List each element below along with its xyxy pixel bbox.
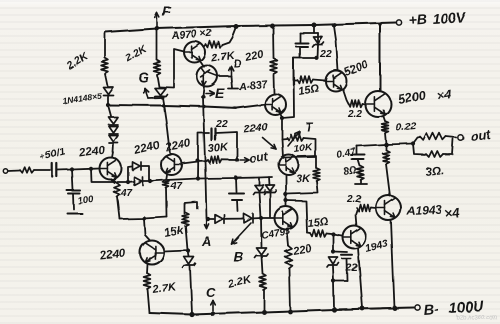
svg-text:15Ω: 15Ω — [307, 216, 329, 230]
svg-text:100: 100 — [77, 194, 95, 207]
svg-text:×4: ×4 — [435, 86, 453, 103]
svg-text:220: 220 — [243, 48, 265, 64]
svg-text:15Ω: 15Ω — [297, 82, 320, 98]
svg-text:B-: B- — [423, 302, 440, 319]
svg-text:A970 ×2: A970 ×2 — [170, 27, 212, 42]
svg-text:×4: ×4 — [444, 205, 461, 221]
svg-text:2.7K: 2.7K — [151, 281, 178, 296]
svg-text:C: C — [206, 285, 216, 300]
svg-text:0.22: 0.22 — [395, 120, 417, 134]
svg-text:2.2K: 2.2K — [226, 273, 253, 291]
svg-text:5200: 5200 — [343, 58, 371, 79]
svg-text:1N4148×5: 1N4148×5 — [62, 91, 103, 106]
svg-text:A: A — [201, 234, 211, 249]
svg-text:22: 22 — [345, 262, 358, 274]
svg-text:15k: 15k — [163, 225, 185, 240]
svg-text:3Ω.: 3Ω. — [425, 165, 445, 179]
svg-text:220: 220 — [291, 243, 313, 258]
svg-text:2240: 2240 — [98, 247, 126, 262]
svg-text:100V: 100V — [432, 9, 467, 27]
svg-text:2.2K: 2.2K — [123, 42, 150, 65]
svg-text:T: T — [305, 120, 314, 134]
svg-text:8Ω: 8Ω — [343, 165, 358, 178]
svg-text:5200: 5200 — [397, 88, 427, 107]
svg-text:2240: 2240 — [132, 139, 161, 157]
svg-text:50/1: 50/1 — [44, 145, 67, 162]
svg-text:30K: 30K — [207, 141, 229, 155]
svg-text:2.2: 2.2 — [347, 109, 362, 120]
svg-text:+B: +B — [408, 11, 427, 28]
svg-text:2.2: 2.2 — [346, 194, 361, 205]
svg-text:out: out — [248, 149, 269, 166]
svg-text:22: 22 — [215, 118, 228, 130]
svg-text:3K: 3K — [296, 173, 311, 185]
svg-text:10K: 10K — [293, 141, 313, 155]
svg-text:47: 47 — [170, 181, 183, 192]
svg-text:2.7K: 2.7K — [210, 50, 237, 65]
svg-text:22: 22 — [319, 48, 332, 60]
svg-text:1943: 1943 — [364, 238, 390, 255]
svg-text:A1943: A1943 — [406, 203, 443, 218]
svg-text:F: F — [162, 3, 171, 19]
svg-text:B: B — [233, 248, 243, 264]
svg-text:E: E — [215, 85, 225, 101]
svg-text:2240: 2240 — [242, 121, 269, 136]
svg-text:b2b.hc360.com: b2b.hc360.com — [456, 315, 497, 321]
svg-text:2240: 2240 — [78, 144, 107, 160]
svg-text:47: 47 — [120, 188, 133, 199]
svg-text:G: G — [138, 69, 149, 85]
svg-text:2.2K: 2.2K — [64, 50, 91, 73]
svg-text:A-837: A-837 — [237, 78, 269, 93]
svg-text:out: out — [470, 127, 492, 144]
